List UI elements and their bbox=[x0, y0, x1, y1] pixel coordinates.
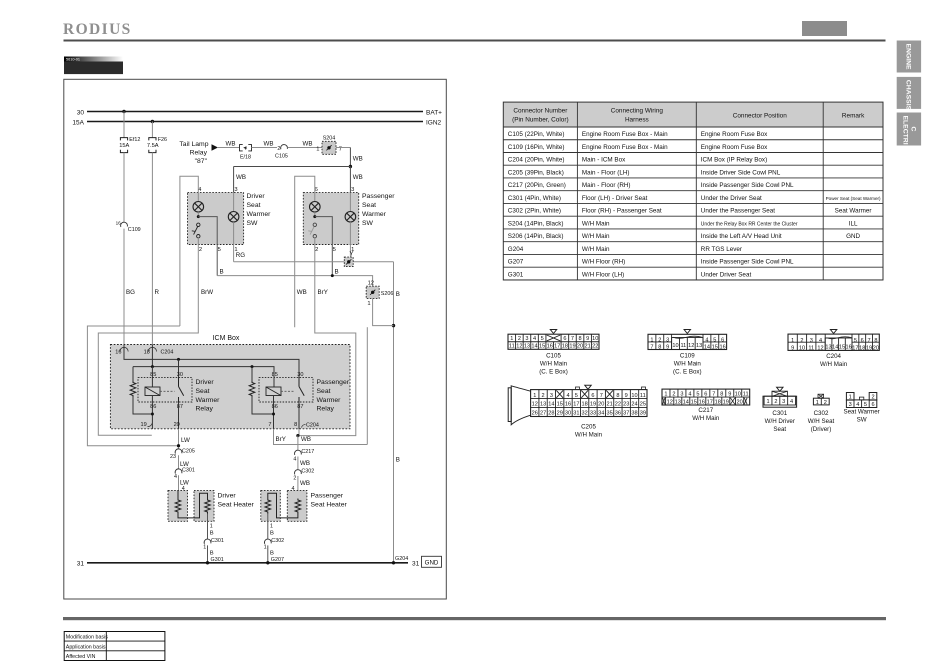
svg-text:9: 9 bbox=[666, 345, 669, 351]
svg-text:21: 21 bbox=[606, 402, 612, 408]
svg-text:C105: C105 bbox=[275, 153, 288, 159]
svg-text:3: 3 bbox=[782, 399, 785, 405]
connector C109 pin16 bbox=[116, 221, 141, 234]
svg-text:17: 17 bbox=[852, 345, 858, 351]
svg-text:W/H Main: W/H Main bbox=[582, 220, 610, 227]
svg-text:Passenger: Passenger bbox=[317, 379, 350, 386]
svg-text:Seat Heater: Seat Heater bbox=[218, 501, 255, 508]
svg-text:CHASSIS: CHASSIS bbox=[905, 80, 912, 111]
svg-text:8: 8 bbox=[578, 336, 581, 342]
svg-text:F26: F26 bbox=[158, 137, 167, 143]
svg-text:C204: C204 bbox=[161, 349, 174, 355]
svg-text:11: 11 bbox=[640, 393, 646, 399]
svg-text:1: 1 bbox=[510, 336, 513, 342]
svg-text:SW: SW bbox=[247, 220, 259, 227]
wire pin8 down bbox=[297, 436, 299, 451]
svg-text:36: 36 bbox=[615, 411, 621, 417]
svg-text:30: 30 bbox=[77, 109, 85, 116]
svg-text:Warmer: Warmer bbox=[362, 211, 387, 218]
wire pin20 down bbox=[178, 429, 180, 449]
svg-text:Tail Lamp: Tail Lamp bbox=[179, 141, 208, 148]
svg-text:Passenger: Passenger bbox=[362, 193, 395, 200]
svg-text:Under Driver Seat: Under Driver Seat bbox=[701, 271, 752, 278]
pinout Seat Warmer SW bbox=[843, 393, 879, 424]
junction LW bbox=[177, 444, 180, 447]
svg-text:W/H Main: W/H Main bbox=[820, 361, 848, 368]
svg-text:C302: C302 bbox=[271, 538, 284, 544]
svg-text:Seat: Seat bbox=[317, 388, 331, 395]
wire pin7 BrY bbox=[274, 429, 368, 445]
svg-text:8: 8 bbox=[874, 338, 877, 344]
wire passenger coil to pin7 bbox=[273, 396, 275, 430]
svg-text:87: 87 bbox=[177, 404, 183, 410]
svg-text:38: 38 bbox=[631, 411, 637, 417]
pinout C109 bbox=[648, 330, 727, 376]
passenger SW switch bbox=[308, 223, 316, 238]
svg-text:Ef12: Ef12 bbox=[129, 137, 140, 143]
svg-text:29: 29 bbox=[557, 411, 563, 417]
svg-text:9: 9 bbox=[586, 336, 589, 342]
svg-text:1: 1 bbox=[270, 523, 273, 529]
svg-text:16: 16 bbox=[116, 221, 122, 226]
svg-text:2: 2 bbox=[672, 392, 675, 398]
splice S204 bbox=[322, 136, 336, 155]
svg-text:5: 5 bbox=[218, 247, 221, 253]
svg-text:3: 3 bbox=[849, 402, 852, 408]
arrow from tail lamp relay bbox=[212, 144, 219, 150]
svg-text:Relay: Relay bbox=[317, 406, 335, 413]
wire WB wrap right bbox=[366, 327, 368, 444]
svg-text:6: 6 bbox=[721, 338, 724, 344]
svg-text:4: 4 bbox=[790, 399, 793, 405]
svg-text:3: 3 bbox=[351, 187, 354, 193]
svg-text:1: 1 bbox=[533, 393, 536, 399]
svg-text:Seat Heater: Seat Heater bbox=[311, 501, 348, 508]
svg-text:23: 23 bbox=[170, 454, 176, 460]
svg-text:W/H Main: W/H Main bbox=[582, 246, 610, 253]
wire WB segment 2 bbox=[252, 147, 278, 149]
svg-text:SW: SW bbox=[362, 220, 374, 227]
driver seat heater box 1 bbox=[168, 490, 188, 521]
connector C301 pin4 upper bbox=[174, 468, 195, 480]
pinout C302 bbox=[808, 394, 835, 433]
svg-text:19: 19 bbox=[140, 422, 146, 428]
svg-text:C217 (20Pin, Green): C217 (20Pin, Green) bbox=[508, 182, 566, 189]
svg-text:Connecting Wiring: Connecting Wiring bbox=[611, 108, 664, 115]
passenger seat warmer relay box bbox=[259, 378, 313, 402]
svg-text:12: 12 bbox=[532, 402, 538, 408]
svg-text:4: 4 bbox=[856, 402, 859, 408]
section label box bbox=[64, 57, 123, 75]
driver SW lamp 2 wire bbox=[233, 193, 235, 212]
driver heater resistor 1 bbox=[177, 490, 179, 498]
svg-text:15: 15 bbox=[539, 344, 545, 350]
svg-text:20: 20 bbox=[873, 345, 879, 351]
svg-text:18: 18 bbox=[562, 344, 568, 350]
svg-text:Main - ICM Box: Main - ICM Box bbox=[582, 157, 626, 164]
pinout C217 bbox=[662, 389, 750, 422]
svg-text:18: 18 bbox=[859, 345, 865, 351]
svg-text:4: 4 bbox=[705, 338, 708, 344]
driver SW lamp 2 bbox=[228, 212, 239, 223]
wire bus30 to fuse Ef12 bbox=[123, 112, 125, 138]
svg-text:Under the Driver Seat: Under the Driver Seat bbox=[701, 195, 762, 202]
svg-text:G301: G301 bbox=[508, 271, 524, 278]
svg-text:C105 (22Pin, White): C105 (22Pin, White) bbox=[508, 131, 565, 138]
wire C205 to C301 bbox=[178, 455, 180, 469]
connector C105 pin2 bbox=[275, 145, 288, 160]
svg-text:4: 4 bbox=[566, 393, 569, 399]
svg-text:86: 86 bbox=[150, 404, 156, 410]
svg-text:6: 6 bbox=[861, 338, 864, 344]
fuse Ef12 15A bbox=[119, 137, 140, 153]
svg-text:9: 9 bbox=[728, 392, 731, 398]
wire p-lamp2 to pin1 Y bbox=[349, 222, 351, 257]
svg-text:Driver: Driver bbox=[218, 492, 237, 499]
svg-text:20: 20 bbox=[598, 402, 604, 408]
svg-text:5: 5 bbox=[333, 247, 336, 253]
wire bus2 to passenger coil bbox=[273, 367, 275, 387]
svg-text:W/H Main: W/H Main bbox=[692, 415, 720, 422]
svg-text:34: 34 bbox=[598, 411, 604, 417]
svg-text:12: 12 bbox=[368, 281, 374, 287]
svg-text:WB: WB bbox=[264, 141, 274, 148]
svg-text:27: 27 bbox=[540, 411, 546, 417]
svg-text:1: 1 bbox=[203, 544, 206, 550]
svg-text:W/H Main: W/H Main bbox=[674, 361, 702, 368]
svg-text:Main - Floor (LH): Main - Floor (LH) bbox=[582, 169, 630, 176]
svg-text:G207: G207 bbox=[508, 259, 524, 266]
svg-text:2: 2 bbox=[518, 336, 521, 342]
svg-text:10: 10 bbox=[592, 336, 598, 342]
svg-text:30: 30 bbox=[177, 372, 183, 378]
ground G204 bbox=[392, 561, 395, 564]
wire lamp2 to pin1 RG bbox=[233, 222, 235, 262]
junction passenger SW bbox=[313, 215, 316, 218]
svg-text:21: 21 bbox=[585, 344, 591, 350]
svg-text:1: 1 bbox=[766, 399, 769, 405]
svg-text:23: 23 bbox=[623, 402, 629, 408]
svg-text:22: 22 bbox=[615, 402, 621, 408]
junction WB pin8 bbox=[298, 429, 300, 436]
svg-text:11: 11 bbox=[680, 343, 686, 349]
wire to driver resistor bbox=[132, 367, 134, 381]
svg-text:22: 22 bbox=[592, 344, 598, 350]
svg-text:B: B bbox=[210, 551, 214, 557]
svg-text:14: 14 bbox=[548, 402, 554, 408]
svg-text:16: 16 bbox=[720, 345, 726, 351]
svg-text:LW: LW bbox=[181, 437, 190, 444]
wire S204 to corner bbox=[336, 147, 350, 149]
svg-text:C204 (20Pin, White): C204 (20Pin, White) bbox=[508, 157, 565, 164]
svg-text:S204 (14Pin, Black): S204 (14Pin, Black) bbox=[508, 220, 564, 227]
svg-text:5610-01: 5610-01 bbox=[66, 58, 80, 62]
driver heater wire snake bbox=[178, 493, 208, 518]
wire WB down right bbox=[349, 148, 351, 167]
svg-text:Seat Warmer: Seat Warmer bbox=[843, 409, 879, 416]
svg-text:BAT+: BAT+ bbox=[426, 109, 442, 116]
footer revision table bbox=[64, 632, 165, 661]
wire p-switch to pin2 BrY bbox=[298, 238, 356, 436]
wire B bus bbox=[217, 276, 372, 287]
pinout C204 bbox=[788, 330, 879, 369]
wire LW wrap bbox=[87, 326, 179, 446]
wire WB to passenger SW pin3 bbox=[349, 167, 351, 193]
svg-text:2: 2 bbox=[199, 247, 202, 253]
svg-text:13: 13 bbox=[540, 402, 546, 408]
wire p-node to pin5 bbox=[315, 217, 333, 276]
connector C302 pin1 lower bbox=[264, 538, 285, 551]
svg-text:85: 85 bbox=[272, 372, 278, 378]
svg-text:ILL: ILL bbox=[849, 220, 858, 227]
svg-text:8: 8 bbox=[720, 392, 723, 398]
wire driver heater out bbox=[207, 514, 209, 540]
svg-text:31: 31 bbox=[77, 561, 85, 568]
bus 30 BAT+ bbox=[77, 109, 442, 116]
svg-text:Engine Room Fuse Box: Engine Room Fuse Box bbox=[701, 131, 768, 138]
svg-text:G204: G204 bbox=[508, 246, 524, 253]
svg-text:87: 87 bbox=[297, 404, 303, 410]
svg-text:GND: GND bbox=[846, 233, 860, 240]
svg-text:5: 5 bbox=[541, 336, 544, 342]
svg-text:Under the Relay Box RR Center: Under the Relay Box RR Center the Cluste… bbox=[701, 221, 798, 227]
svg-text:25: 25 bbox=[640, 402, 646, 408]
svg-text:1: 1 bbox=[210, 523, 213, 529]
svg-text:18: 18 bbox=[144, 349, 150, 355]
wire bus15A to fuse F26 bbox=[151, 122, 153, 138]
svg-text:Warmer: Warmer bbox=[196, 397, 221, 404]
svg-text:Harness: Harness bbox=[625, 117, 649, 124]
svg-text:W/H Main: W/H Main bbox=[575, 432, 603, 439]
svg-text:15: 15 bbox=[691, 399, 697, 405]
wire to passenger resistor bbox=[251, 367, 253, 381]
svg-text:C302 (2Pin, White): C302 (2Pin, White) bbox=[508, 208, 561, 215]
svg-text:G301: G301 bbox=[211, 557, 224, 563]
wire bus2 horizontal bbox=[133, 367, 274, 387]
svg-text:16: 16 bbox=[547, 344, 553, 350]
pinout C105 bbox=[508, 330, 599, 376]
wire p-lamp1 to node bbox=[314, 212, 316, 217]
junction bus2 driver coil bbox=[151, 365, 154, 368]
svg-text:Modification basis: Modification basis bbox=[66, 635, 108, 641]
svg-text:W/H Floor (LH): W/H Floor (LH) bbox=[582, 271, 624, 278]
svg-text:C109: C109 bbox=[128, 227, 141, 233]
svg-text:4: 4 bbox=[533, 336, 536, 342]
ICM pin 18 bbox=[144, 347, 157, 355]
svg-text:Application basis: Application basis bbox=[66, 644, 106, 650]
wire R bbox=[151, 153, 153, 345]
svg-text:Remark: Remark bbox=[842, 113, 865, 120]
svg-text:35: 35 bbox=[606, 411, 612, 417]
bus 15A IGN2 bbox=[72, 119, 441, 126]
svg-text:G204: G204 bbox=[395, 556, 408, 562]
svg-text:18: 18 bbox=[715, 399, 721, 405]
driver seat warmer relay box bbox=[138, 378, 192, 402]
svg-text:C105: C105 bbox=[546, 353, 561, 360]
svg-text:C217: C217 bbox=[698, 407, 713, 414]
connector C217 pin4 bbox=[293, 449, 314, 462]
driver seat heater box 2 bbox=[194, 490, 214, 521]
svg-text:14: 14 bbox=[531, 344, 537, 350]
svg-text:Seat: Seat bbox=[773, 426, 786, 433]
svg-text:3: 3 bbox=[810, 338, 813, 344]
connector C302 pin2 upper bbox=[293, 468, 314, 481]
svg-text:WB: WB bbox=[301, 436, 311, 443]
wire C302 to heater bbox=[297, 476, 299, 490]
svg-text:C: C bbox=[910, 127, 917, 132]
svg-text:28: 28 bbox=[548, 411, 554, 417]
svg-text:Inside the Left A/V Head Unit: Inside the Left A/V Head Unit bbox=[701, 233, 782, 240]
junction B bus bbox=[331, 274, 334, 277]
svg-text:7: 7 bbox=[868, 338, 871, 344]
svg-text:20: 20 bbox=[736, 399, 742, 405]
svg-text:WB: WB bbox=[236, 174, 246, 181]
svg-text:Floor (LH) - Driver Seat: Floor (LH) - Driver Seat bbox=[582, 195, 648, 202]
svg-text:14: 14 bbox=[832, 344, 838, 350]
svg-text:WB: WB bbox=[303, 141, 313, 148]
svg-text:IGN2: IGN2 bbox=[426, 119, 442, 126]
wire WB to driver SW pin3 bbox=[233, 167, 235, 193]
svg-text:C301: C301 bbox=[772, 410, 787, 417]
junction bus15A bbox=[151, 120, 154, 123]
svg-text:16: 16 bbox=[846, 344, 852, 350]
passenger seat heater box 1 bbox=[261, 490, 281, 521]
svg-text:Relay: Relay bbox=[196, 406, 214, 413]
svg-text:12: 12 bbox=[516, 344, 522, 350]
svg-text:WB: WB bbox=[297, 289, 307, 296]
svg-text:RODIUS: RODIUS bbox=[63, 21, 132, 38]
svg-text:4: 4 bbox=[688, 392, 691, 398]
svg-text:Engine Room Fuse Box - Main: Engine Room Fuse Box - Main bbox=[582, 144, 668, 151]
svg-text:C205: C205 bbox=[182, 449, 195, 455]
svg-text:W/H Seat: W/H Seat bbox=[808, 418, 835, 425]
splice S206 bbox=[366, 286, 379, 298]
driver seat heater label bbox=[218, 492, 255, 508]
svg-text:Warmer: Warmer bbox=[317, 397, 342, 404]
svg-text:7.5A: 7.5A bbox=[147, 143, 159, 149]
svg-text:9: 9 bbox=[791, 345, 794, 351]
passenger SW lamp 2 bbox=[345, 212, 356, 223]
svg-text:Connector Position: Connector Position bbox=[733, 113, 787, 120]
svg-text:ICM Box (IP Relay Box): ICM Box (IP Relay Box) bbox=[701, 157, 767, 164]
wire node to pin5 bbox=[198, 217, 217, 276]
svg-text:85: 85 bbox=[150, 372, 156, 378]
svg-text:C302: C302 bbox=[301, 468, 314, 474]
wire WB loop top bbox=[295, 176, 315, 327]
svg-text:(Driver): (Driver) bbox=[811, 426, 832, 433]
junction passenger coil-res bbox=[272, 413, 275, 416]
junction bus1 driver bbox=[177, 358, 180, 361]
junction bus30 bbox=[122, 110, 125, 113]
ICM pin C204 bottom bbox=[302, 423, 319, 429]
svg-text:S206 (14Pin, Black): S206 (14Pin, Black) bbox=[508, 233, 564, 240]
wire C301 to heater bbox=[178, 475, 180, 490]
svg-text:Power Seat (Seat Warmer): Power Seat (Seat Warmer) bbox=[826, 196, 881, 201]
svg-text:R: R bbox=[155, 289, 160, 296]
svg-text:2: 2 bbox=[658, 338, 661, 344]
connector table bbox=[503, 102, 883, 280]
svg-text:G207: G207 bbox=[271, 557, 284, 563]
svg-text:1: 1 bbox=[367, 301, 370, 307]
wire switch to pin2 BrW bbox=[98, 238, 198, 435]
svg-text:Seat: Seat bbox=[196, 388, 210, 395]
svg-text:BrW: BrW bbox=[201, 289, 213, 296]
passenger relay coil bbox=[266, 387, 281, 396]
connector C205 pin23 bbox=[170, 449, 195, 460]
passenger relay link bbox=[281, 390, 295, 392]
svg-text:Main - Floor (RH): Main - Floor (RH) bbox=[582, 182, 631, 189]
svg-text:Seat: Seat bbox=[362, 202, 376, 209]
junction bus2 passenger res bbox=[251, 365, 254, 368]
svg-text:2: 2 bbox=[774, 399, 777, 405]
driver SW lamp 1 bbox=[193, 202, 204, 213]
tab ELECTRIC bbox=[897, 113, 921, 146]
svg-text:C302: C302 bbox=[814, 410, 829, 417]
svg-text:4: 4 bbox=[293, 456, 296, 462]
svg-text:C205 (39Pin, Black): C205 (39Pin, Black) bbox=[508, 169, 564, 176]
svg-text:1: 1 bbox=[816, 400, 819, 406]
passenger SW label bbox=[362, 193, 395, 227]
svg-text:BG: BG bbox=[126, 289, 135, 296]
passenger relay label bbox=[317, 379, 350, 412]
svg-text:C205: C205 bbox=[581, 424, 596, 431]
wire WB horizontal split bbox=[234, 166, 351, 168]
driver SW switch bbox=[192, 223, 200, 238]
wire LW loop top bbox=[180, 176, 198, 326]
wire driver 87 to pin20 bbox=[178, 402, 180, 429]
svg-text:5: 5 bbox=[864, 402, 867, 408]
svg-text:S204: S204 bbox=[323, 136, 336, 142]
svg-text:5: 5 bbox=[696, 392, 699, 398]
svg-text:16: 16 bbox=[699, 399, 705, 405]
svg-text:3: 3 bbox=[234, 187, 237, 193]
svg-text:3: 3 bbox=[680, 392, 683, 398]
wire C217 to C302 bbox=[297, 457, 299, 470]
page number box bbox=[802, 21, 847, 36]
GND symbol bbox=[422, 556, 442, 567]
svg-text:C204: C204 bbox=[826, 353, 841, 360]
svg-text:C301: C301 bbox=[211, 538, 224, 544]
svg-text:3: 3 bbox=[666, 338, 669, 344]
svg-text:ENGINE: ENGINE bbox=[905, 44, 912, 71]
svg-text:Warmer: Warmer bbox=[247, 211, 272, 218]
svg-text:11: 11 bbox=[808, 345, 814, 351]
svg-text:17: 17 bbox=[573, 402, 579, 408]
svg-text:WB: WB bbox=[300, 480, 310, 487]
tab CHASSIS bbox=[897, 77, 921, 111]
passenger relay switch bbox=[299, 378, 304, 402]
svg-text:26: 26 bbox=[532, 411, 538, 417]
ground bus 31 bbox=[77, 561, 408, 568]
wire Y down to ground B bbox=[393, 262, 395, 563]
passenger SW lamp 1 bbox=[310, 202, 321, 213]
svg-text:6: 6 bbox=[704, 392, 707, 398]
svg-text:(C. E Box): (C. E Box) bbox=[673, 369, 702, 376]
svg-text:ICM Box: ICM Box bbox=[213, 335, 240, 342]
passenger seat heater label bbox=[311, 492, 348, 508]
svg-text:SW: SW bbox=[857, 417, 867, 424]
passenger heater resistor 1 bbox=[265, 499, 271, 514]
svg-text:7: 7 bbox=[600, 393, 603, 399]
svg-text:14: 14 bbox=[704, 345, 710, 351]
driver relay label bbox=[196, 379, 221, 412]
tab ENGINE bbox=[897, 41, 921, 73]
svg-text:2: 2 bbox=[800, 338, 803, 344]
tail lamp relay label bbox=[179, 141, 208, 165]
svg-text:B: B bbox=[270, 531, 274, 537]
svg-text:8: 8 bbox=[616, 393, 619, 399]
svg-text:5: 5 bbox=[854, 338, 857, 344]
